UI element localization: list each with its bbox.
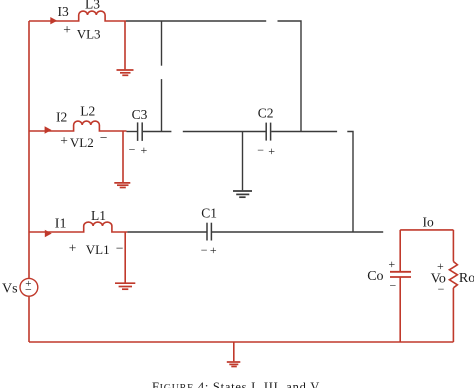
- svg-text:+: +: [69, 240, 77, 255]
- svg-text:L3: L3: [85, 0, 100, 11]
- svg-text:−: −: [129, 142, 136, 156]
- svg-text:−: −: [257, 143, 264, 157]
- svg-text:+: +: [268, 144, 275, 158]
- svg-text:−: −: [390, 278, 397, 292]
- svg-text:C2: C2: [258, 106, 274, 121]
- svg-text:VL2: VL2: [70, 135, 94, 150]
- svg-text:I2: I2: [56, 109, 67, 124]
- svg-text:L2: L2: [80, 104, 95, 119]
- svg-text:−: −: [100, 130, 108, 145]
- svg-text:C3: C3: [132, 107, 148, 122]
- svg-text:+: +: [60, 133, 68, 148]
- svg-text:Vs: Vs: [2, 281, 18, 296]
- svg-text:Co: Co: [367, 269, 383, 284]
- svg-text:+: +: [437, 259, 444, 273]
- svg-text:+: +: [63, 22, 71, 37]
- svg-text:I3: I3: [58, 4, 69, 19]
- svg-text:−: −: [201, 243, 208, 257]
- svg-text:−: −: [116, 240, 124, 255]
- svg-text:C1: C1: [201, 206, 217, 221]
- svg-text:−: −: [438, 282, 445, 296]
- svg-text:+: +: [210, 243, 217, 257]
- svg-text:+: +: [388, 257, 395, 271]
- svg-text:+: +: [141, 143, 148, 157]
- svg-text:Ro: Ro: [459, 271, 474, 286]
- svg-text:Io: Io: [423, 215, 434, 230]
- svg-text:I1: I1: [55, 217, 67, 232]
- svg-text:−: −: [25, 282, 32, 296]
- svg-text:VL3: VL3: [77, 27, 101, 42]
- svg-text:L1: L1: [91, 208, 106, 223]
- svg-text:VL1: VL1: [86, 242, 110, 257]
